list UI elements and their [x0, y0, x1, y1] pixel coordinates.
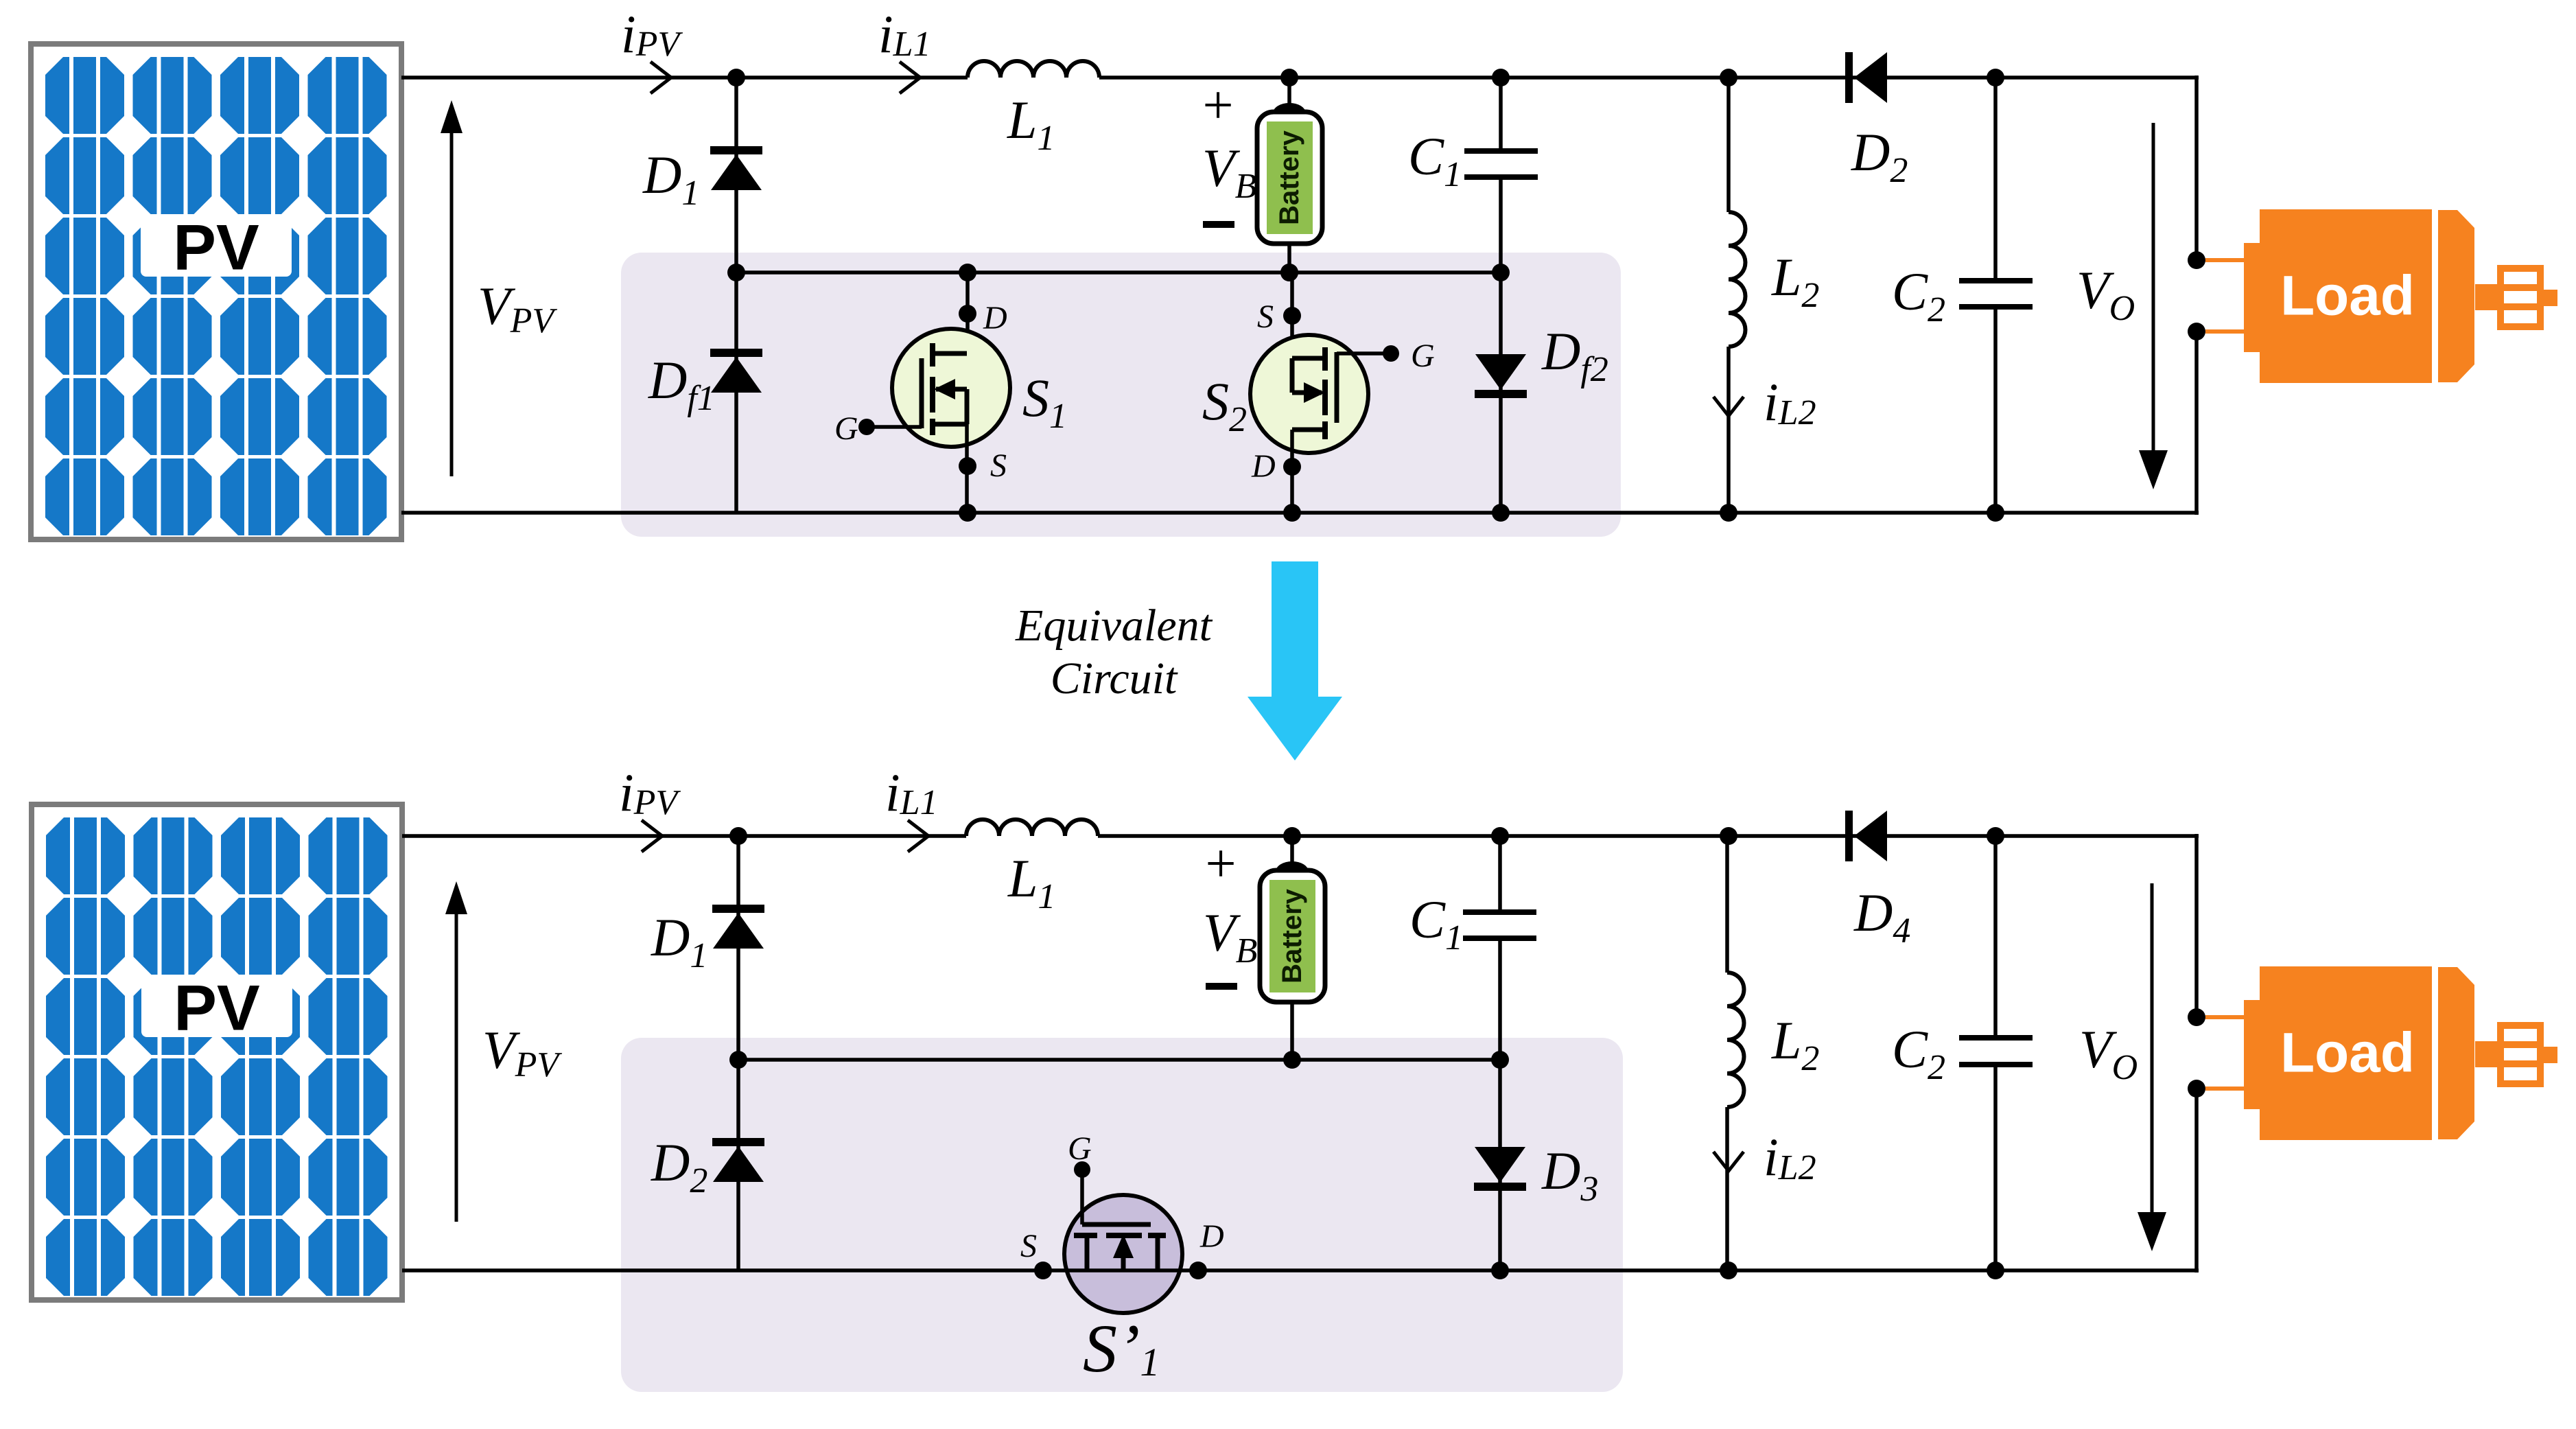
PV panel PV2	[32, 804, 402, 1300]
wire top rail (L1 to right corner)	[1099, 75, 2199, 80]
svg-text:D: D	[1251, 448, 1276, 485]
svg-text:L1: L1	[1007, 848, 1055, 916]
node inner-left	[727, 264, 745, 281]
svg-text:Equivalent: Equivalent	[1015, 601, 1213, 651]
svg-text:L2: L2	[1771, 1010, 1819, 1078]
pin dot S1 D	[959, 305, 976, 323]
svg-text:S: S	[990, 448, 1007, 484]
wire D1 branch	[734, 78, 738, 272]
inductor L2	[1729, 78, 1746, 513]
battery VB 2	[1260, 836, 1325, 1002]
pin dot S2 S	[1283, 307, 1301, 325]
pin dot S'1 D	[1189, 1262, 1207, 1279]
node L2 bottom	[1720, 504, 1737, 522]
node battery bottom	[1280, 264, 1298, 281]
node S2 source rail	[1280, 264, 1298, 281]
arrow equivalent (cyan)	[1248, 561, 1342, 760]
mosfet S2	[1250, 335, 1399, 453]
inner rail wire	[736, 270, 1501, 275]
svg-text:D: D	[983, 300, 1007, 336]
wire S1 drain	[965, 272, 970, 353]
node C1 top	[1492, 69, 1510, 86]
wire Df1 branch	[734, 272, 738, 513]
svg-text:VB: VB	[1202, 138, 1256, 206]
wire bottom rail	[401, 511, 2199, 515]
capacitor C1	[1464, 78, 1538, 272]
label minus	[1203, 221, 1234, 228]
node D3 bottom	[1491, 1262, 1509, 1279]
diode D2	[1845, 52, 1887, 103]
diode Df2	[1475, 354, 1527, 398]
svg-text:VPV: VPV	[482, 1020, 562, 1084]
diode D4	[1845, 811, 1887, 861]
node C1' bottom / inner rail right	[1491, 1051, 1509, 1069]
svg-text:VPV: VPV	[478, 276, 557, 340]
svg-text:S: S	[1257, 299, 1274, 335]
svg-text:+: +	[1205, 834, 1236, 894]
svg-text:C1: C1	[1408, 126, 1462, 194]
node S1 drain rail	[959, 264, 976, 281]
PV panel PV1	[31, 44, 401, 539]
capacitor C2 (bottom)	[1959, 836, 2033, 1270]
arrow iPV	[651, 62, 671, 93]
svg-text:iL2: iL2	[1764, 1127, 1816, 1187]
wire S2 source	[1290, 272, 1294, 358]
node top of D1'	[729, 827, 747, 845]
svg-text:+: +	[1202, 75, 1233, 136]
wire battery bottom	[1287, 244, 1291, 272]
svg-text:S: S	[1020, 1228, 1037, 1264]
diode Df1	[710, 349, 762, 393]
wire D2' branch	[736, 1060, 740, 1270]
node inner-left 2	[729, 1051, 747, 1069]
node C2 top	[1987, 69, 2004, 86]
arrow iPV 2	[642, 820, 662, 852]
node C2 bottom	[1987, 504, 2004, 522]
wire right vertical upper	[2194, 75, 2199, 260]
svg-text:G: G	[1411, 338, 1435, 374]
node L2' bottom	[1720, 1262, 1737, 1279]
svg-text:iL2: iL2	[1764, 372, 1816, 432]
node C2' bottom	[1987, 1262, 2004, 1279]
node Df2 bottom	[1492, 504, 1510, 522]
converter box (shaded region)	[621, 253, 1621, 537]
battery VB	[1257, 78, 1322, 244]
wire S2 drain	[1290, 430, 1294, 513]
svg-text:G: G	[834, 410, 858, 447]
svg-text:VO: VO	[2079, 1019, 2138, 1087]
svg-text:D1: D1	[642, 145, 699, 213]
wire Df2 branch	[1499, 272, 1503, 513]
diode D3	[1474, 1147, 1526, 1191]
arrow VO	[2139, 123, 2168, 489]
svg-text:C2: C2	[1892, 262, 1945, 329]
node S1 source rail	[959, 504, 976, 522]
load motor 2	[2188, 966, 2557, 1140]
arrow VPV 2	[455, 911, 458, 1222]
node top of D1	[727, 69, 745, 86]
wire right vertical upper 2	[2194, 834, 2199, 1017]
svg-text:iL1: iL1	[878, 4, 931, 64]
arrow VPV	[450, 130, 454, 476]
inner rail 2 wire	[738, 1058, 1500, 1062]
svg-text:iPV: iPV	[621, 4, 683, 64]
wire battery2 bottom	[1290, 1002, 1294, 1060]
inductor L2 (bottom)	[1727, 836, 1744, 1270]
node C1' top	[1491, 827, 1509, 845]
converter box 2 (shaded region)	[621, 1038, 1623, 1392]
mosfet S'1	[1064, 1161, 1182, 1313]
node S2 drain rail	[1283, 504, 1301, 522]
arrow iL2	[1713, 397, 1744, 416]
svg-text:D4: D4	[1853, 883, 1910, 951]
svg-text:L1: L1	[1007, 90, 1055, 158]
node L2 top	[1720, 69, 1737, 86]
svg-text:iPV: iPV	[619, 763, 681, 822]
pin dot S2 D	[1283, 458, 1301, 476]
pin dot S'1 S	[1034, 1262, 1052, 1279]
svg-text:G: G	[1068, 1130, 1092, 1167]
arrow iL1 2	[908, 820, 928, 852]
svg-text:L2: L2	[1771, 247, 1819, 315]
pin dot S1 S	[959, 457, 976, 475]
diode D2 (bottom)	[712, 1138, 764, 1182]
wire D3 branch	[1498, 1060, 1502, 1270]
inductor L1'	[966, 820, 1098, 836]
capacitor C2	[1959, 78, 2033, 513]
wire right vertical lower	[2194, 332, 2199, 515]
diode D1	[710, 146, 762, 190]
wire top rail (PV to L1)	[401, 75, 968, 80]
arrow iL1	[900, 62, 920, 93]
diode D1 (bottom)	[712, 905, 764, 949]
wire S1 source	[965, 424, 969, 513]
load motor	[2188, 209, 2557, 383]
node L2' top	[1720, 827, 1737, 845]
svg-text:VO: VO	[2076, 260, 2135, 328]
svg-text:C1: C1	[1409, 890, 1463, 957]
svg-text:D2: D2	[1851, 122, 1908, 190]
svg-text:iL1: iL1	[885, 763, 938, 822]
wire top rail 2 (L1' to right corner)	[1098, 834, 2199, 838]
node battery top	[1280, 69, 1298, 86]
svg-text:D: D	[1199, 1218, 1224, 1255]
arrow iL2 2	[1713, 1152, 1744, 1171]
wire right vertical lower 2	[2194, 1089, 2199, 1273]
arrow VO 2	[2138, 883, 2166, 1251]
node C1 bottom / inner rail right	[1492, 264, 1510, 281]
svg-text:D1: D1	[651, 907, 707, 975]
svg-text:C2: C2	[1892, 1019, 1945, 1087]
wire D1' branch	[736, 836, 740, 1060]
node battery2 bottom	[1283, 1051, 1301, 1069]
wire top rail 2 (PV to L1')	[402, 834, 966, 838]
capacitor C1 (bottom)	[1463, 836, 1536, 1060]
svg-text:Circuit: Circuit	[1051, 653, 1178, 704]
inductor L1	[968, 61, 1099, 78]
node battery2 top	[1283, 827, 1301, 845]
svg-text:VB: VB	[1203, 903, 1257, 971]
node C2' top	[1987, 827, 2004, 845]
label minus 2	[1206, 983, 1237, 990]
wire bottom rail 2	[402, 1268, 2199, 1273]
mosfet S1	[858, 329, 1010, 447]
